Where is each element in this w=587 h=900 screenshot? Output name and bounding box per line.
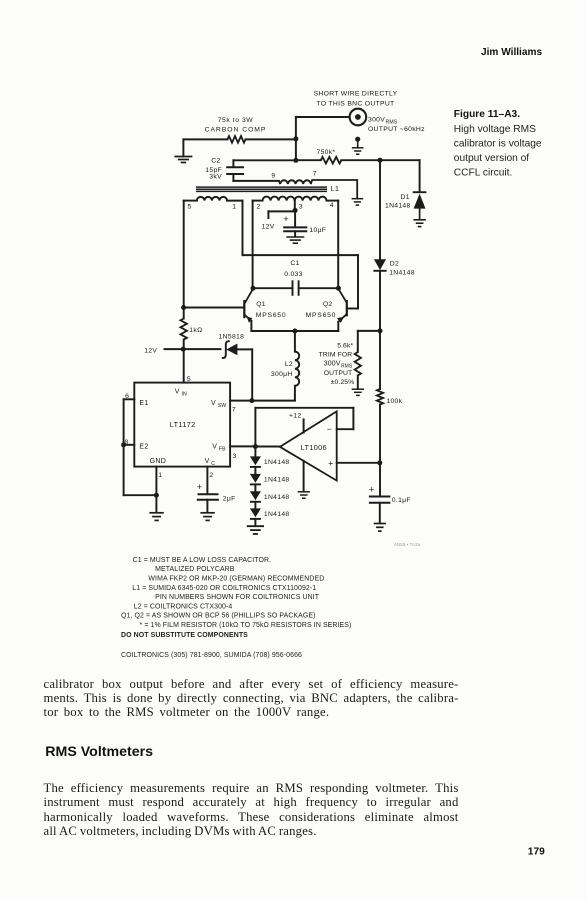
svg-text:LT1172: LT1172 bbox=[170, 420, 196, 429]
svg-text:V: V bbox=[211, 400, 216, 407]
svg-text:300μH: 300μH bbox=[271, 371, 293, 378]
svg-text:COILTRONICS (305) 781-8900, SU: COILTRONICS (305) 781-8900, SUMIDA (708)… bbox=[121, 652, 302, 659]
svg-text:1N4148: 1N4148 bbox=[389, 270, 415, 277]
svg-text:179: 179 bbox=[528, 847, 545, 858]
svg-text:1N4148: 1N4148 bbox=[264, 459, 290, 466]
svg-text:2μF: 2μF bbox=[223, 495, 236, 502]
svg-text:RMS: RMS bbox=[341, 364, 353, 370]
svg-text:1kΩ: 1kΩ bbox=[189, 327, 202, 334]
svg-text:AN55 • TA3a: AN55 • TA3a bbox=[394, 542, 421, 547]
svg-text:Jim Williams: Jim Williams bbox=[481, 47, 542, 58]
svg-text:L1 = SUMIDA 6345-020 OR COILTR: L1 = SUMIDA 6345-020 OR COILTRONICS CTX1… bbox=[132, 585, 316, 592]
svg-text:+: + bbox=[369, 485, 374, 495]
svg-text:5: 5 bbox=[187, 203, 191, 210]
svg-text:MPS650: MPS650 bbox=[306, 312, 337, 319]
svg-text:1N4148: 1N4148 bbox=[264, 494, 290, 501]
svg-text:OUTPUT ~60kHz: OUTPUT ~60kHz bbox=[368, 126, 425, 133]
svg-text:C2: C2 bbox=[211, 157, 220, 164]
svg-text:METALIZED POLYCARB: METALIZED POLYCARB bbox=[155, 566, 235, 573]
svg-text:output version of: output version of bbox=[454, 153, 529, 164]
svg-text:calibrator is voltage: calibrator is voltage bbox=[454, 138, 542, 149]
svg-text:12V: 12V bbox=[262, 224, 275, 231]
svg-text:0.1μF: 0.1μF bbox=[392, 497, 411, 504]
svg-text:RMS: RMS bbox=[386, 119, 398, 125]
svg-text:FB: FB bbox=[219, 446, 226, 452]
svg-text:DO NOT SUBSTITUTE COMPONENTS: DO NOT SUBSTITUTE COMPONENTS bbox=[121, 632, 248, 639]
svg-text:C1: C1 bbox=[290, 260, 299, 267]
svg-text:75k to 3W: 75k to 3W bbox=[218, 117, 254, 124]
svg-text:300V: 300V bbox=[324, 361, 341, 368]
svg-text:Q1: Q1 bbox=[256, 301, 266, 308]
svg-text:D1: D1 bbox=[401, 194, 410, 201]
svg-text:V: V bbox=[175, 388, 180, 395]
svg-text:7: 7 bbox=[313, 171, 317, 178]
svg-text:L2: L2 bbox=[285, 361, 293, 368]
svg-text:SW: SW bbox=[218, 403, 227, 409]
svg-text:High voltage RMS: High voltage RMS bbox=[454, 124, 536, 135]
svg-text:+12: +12 bbox=[289, 412, 301, 419]
svg-text:9: 9 bbox=[271, 172, 275, 179]
svg-text:RMS Voltmeters: RMS Voltmeters bbox=[45, 744, 153, 760]
svg-text:−: − bbox=[327, 424, 332, 434]
svg-text:D2: D2 bbox=[390, 260, 399, 267]
svg-text:2: 2 bbox=[257, 203, 261, 210]
svg-text:1N4148: 1N4148 bbox=[264, 511, 290, 518]
svg-text:PIN NUMBERS SHOWN FOR COILTRON: PIN NUMBERS SHOWN FOR COILTRONICS UNIT bbox=[155, 594, 320, 601]
svg-text:4: 4 bbox=[330, 202, 334, 209]
svg-text:300V: 300V bbox=[368, 116, 385, 123]
svg-text:TRIM FOR: TRIM FOR bbox=[319, 352, 353, 359]
svg-text:C: C bbox=[211, 461, 215, 467]
svg-text:±0.25%: ±0.25% bbox=[331, 379, 355, 386]
svg-text:GND: GND bbox=[150, 458, 166, 465]
svg-text:1N5818: 1N5818 bbox=[219, 334, 245, 341]
svg-text:V: V bbox=[205, 458, 210, 465]
svg-text:C1 = MUST BE A LOW LOSS CAPACI: C1 = MUST BE A LOW LOSS CAPACITOR. bbox=[133, 557, 272, 564]
svg-text:V: V bbox=[212, 443, 217, 450]
svg-text:Figure 11–A3.: Figure 11–A3. bbox=[454, 109, 520, 120]
svg-text:OUTPUT: OUTPUT bbox=[324, 370, 353, 377]
svg-text:SHORT WIRE DIRECTLY: SHORT WIRE DIRECTLY bbox=[314, 91, 398, 98]
svg-text:750k*: 750k* bbox=[317, 149, 336, 156]
svg-text:3: 3 bbox=[232, 453, 236, 460]
svg-text:100k: 100k bbox=[386, 398, 402, 405]
svg-text:5: 5 bbox=[187, 376, 191, 383]
svg-text:IN: IN bbox=[182, 391, 188, 397]
svg-text:1N4148: 1N4148 bbox=[385, 202, 411, 209]
svg-text:1N4148: 1N4148 bbox=[264, 477, 290, 484]
svg-text:L2 = COILTRONICS CTX300-4: L2 = COILTRONICS CTX300-4 bbox=[134, 603, 233, 610]
svg-text:L1: L1 bbox=[331, 186, 339, 193]
svg-text:1: 1 bbox=[232, 203, 236, 210]
svg-text:Q1, Q2 = AS SHOWN OR BCP 56 (P: Q1, Q2 = AS SHOWN OR BCP 56 (PHILLIPS SO… bbox=[121, 613, 316, 620]
svg-text:* = 1% FILM RESISTOR (10kΩ TO: * = 1% FILM RESISTOR (10kΩ TO 75kΩ RESIS… bbox=[140, 622, 352, 629]
svg-text:+: + bbox=[328, 458, 333, 468]
svg-text:0.033: 0.033 bbox=[284, 271, 303, 278]
svg-text:LT1006: LT1006 bbox=[301, 443, 327, 452]
svg-text:10μF: 10μF bbox=[309, 227, 326, 234]
svg-text:CCFL circuit.: CCFL circuit. bbox=[454, 168, 513, 179]
svg-text:1: 1 bbox=[158, 472, 162, 479]
svg-text:CARBON COMP: CARBON COMP bbox=[205, 126, 267, 133]
svg-text:WIMA FKP2 OR MKP-20 (GERMAN) R: WIMA FKP2 OR MKP-20 (GERMAN) RECOMMENDED bbox=[148, 576, 324, 583]
svg-text:+: + bbox=[283, 214, 288, 224]
svg-text:Q2: Q2 bbox=[323, 301, 333, 308]
svg-text:5.6k*: 5.6k* bbox=[337, 342, 353, 349]
svg-text:3kV: 3kV bbox=[209, 173, 222, 180]
svg-text:12V: 12V bbox=[144, 347, 157, 354]
svg-text:E1: E1 bbox=[139, 400, 148, 407]
svg-text:3: 3 bbox=[299, 203, 303, 210]
svg-text:E2: E2 bbox=[139, 443, 148, 450]
svg-text:MPS650: MPS650 bbox=[256, 312, 287, 319]
svg-text:+: + bbox=[197, 482, 202, 492]
svg-text:7: 7 bbox=[232, 406, 236, 413]
svg-text:TO THIS BNC OUTPUT: TO THIS BNC OUTPUT bbox=[316, 101, 394, 108]
svg-text:2: 2 bbox=[209, 472, 213, 479]
